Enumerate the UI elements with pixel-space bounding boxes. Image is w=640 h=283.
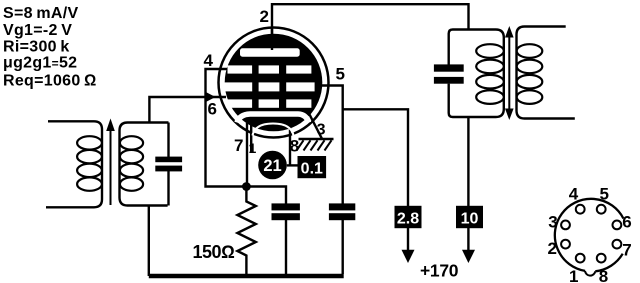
capacitor C5 plates [434, 64, 464, 71]
capacitor C1 plates [155, 157, 182, 163]
svg-text:21: 21 [263, 157, 281, 175]
svg-text:Ri=300 k: Ri=300 k [3, 39, 70, 56]
tube V1 heater [253, 124, 294, 136]
node cathode junction dot [242, 182, 251, 191]
capacitor C3 plates (screen bypass) [329, 203, 355, 210]
wire top rail anode to output transformer [272, 4, 469, 51]
capacitor C1 tuning leads [167, 123, 169, 206]
svg-text:2.8: 2.8 [397, 210, 419, 227]
svg-text:2: 2 [548, 239, 557, 258]
svg-text:8: 8 [599, 267, 608, 283]
wire pin 8 lead [289, 128, 291, 165]
svg-text:Vg1=-2 V: Vg1=-2 V [3, 22, 72, 39]
svg-text:6: 6 [622, 213, 631, 232]
svg-text:0.1: 0.1 [301, 161, 323, 178]
transformer T1 primary coil body [46, 121, 102, 207]
node badge 21 circle [258, 151, 287, 180]
wire pin 5 screen lead down to C3 [321, 86, 343, 204]
wire g3 pin 4 to cathode junction [206, 69, 287, 204]
current label box 10 [456, 206, 483, 228]
svg-text:7: 7 [234, 136, 243, 155]
wire 10 box to arrowhead [467, 228, 469, 252]
transformer T1 tuning arrow [110, 128, 112, 205]
svg-text:4: 4 [569, 185, 579, 204]
resistor R1 150 ohm [237, 187, 255, 275]
svg-text:S=8 mA/V: S=8 mA/V [3, 5, 78, 22]
wire screen branch to 2.8 mA arrow [343, 109, 408, 206]
socket pin holes [561, 205, 621, 263]
wire T1 secondary bottom to rail [148, 206, 150, 277]
grid-line arrowhead at pin 6 [207, 92, 216, 101]
wire T2 primary bottom to 10 mA arrow [467, 117, 469, 206]
svg-text:1: 1 [569, 267, 578, 283]
current label box 2.8 [395, 206, 422, 228]
transformer T2 primary coil body [449, 30, 504, 118]
transformer T2 primary loops [476, 44, 504, 104]
chassis ground bar [299, 138, 334, 140]
wire pin 2 crossing envelope [271, 28, 273, 50]
svg-text:3: 3 [317, 122, 326, 139]
svg-text:Req=1060 Ω: Req=1060 Ω [3, 73, 97, 90]
svg-text:2: 2 [260, 7, 269, 26]
chassis ground hatching [297, 140, 332, 150]
svg-text:5: 5 [600, 185, 609, 204]
transformer T1 primary loops [77, 136, 102, 191]
transformer T1 secondary loops [120, 136, 143, 191]
svg-text:μg2g1=52: μg2g1=52 [3, 55, 77, 72]
svg-text:8: 8 [290, 137, 299, 156]
wire 2.8 box to arrowhead [407, 228, 409, 252]
tube V1 grid row 1 [228, 65, 312, 73]
wire C2 bottom to rail [285, 220, 287, 274]
tube V1 envelope outer circle [219, 28, 329, 138]
wire pin 7 lead [250, 124, 252, 152]
wire cathode pin 1 lead [246, 123, 248, 187]
svg-text:7: 7 [622, 241, 631, 260]
svg-text:150Ω: 150Ω [193, 242, 236, 262]
transformer T2 tuning arrow [508, 35, 510, 111]
transformer T2 secondary loops [517, 44, 543, 104]
socket base outline [555, 199, 624, 271]
arrow 2.8 mA [402, 250, 415, 263]
wire grid line from T1 secondary to pin 6 [149, 97, 226, 123]
wire pin 3 diagonal lead [309, 113, 323, 139]
svg-text:5: 5 [336, 65, 345, 84]
svg-text:+170: +170 [420, 260, 459, 280]
svg-text:6: 6 [208, 100, 217, 119]
transformer T2 secondary coil body [517, 27, 575, 119]
tube V1 grid row 3 [228, 99, 312, 107]
svg-text:4: 4 [204, 51, 214, 70]
svg-text:10: 10 [461, 210, 479, 227]
tube V1 cathode [237, 114, 309, 123]
tube V1 grid row 2 [223, 82, 315, 91]
arrow 10 mA [462, 250, 475, 263]
tube V1 anode bar [240, 48, 300, 56]
wire badge 21 to C4 [287, 164, 298, 166]
transformer T1 secondary coil body [120, 123, 169, 206]
svg-text:1: 1 [249, 140, 257, 156]
wire C3 bottom to rail [342, 220, 344, 274]
capacitor C2 plates (cathode bypass) [272, 203, 300, 210]
ground rail (bottom) [149, 274, 344, 279]
svg-text:3: 3 [548, 213, 557, 232]
socket key notch [585, 271, 595, 276]
capacitor C4 value box 0.1 [298, 156, 327, 178]
tube V1 inner disc [225, 34, 323, 132]
